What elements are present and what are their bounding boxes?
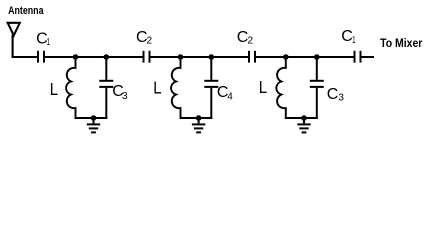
inductor L (tank 1) — [66, 56, 75, 119]
node: tank1 ground tap — [91, 115, 97, 121]
capacitor C2 (series, 1st) — [144, 51, 150, 63]
node: tank1 C3 tap — [104, 54, 110, 60]
ground (tank 3) — [297, 117, 310, 132]
wire: tank3 bottom rail — [285, 117, 318, 119]
svg-text:1: 1 — [352, 35, 356, 46]
node: tank3 C3 tap — [314, 54, 320, 60]
wire: C2 to C1 (spans tank 3 taps) — [256, 56, 354, 58]
svg-text:L: L — [259, 77, 268, 97]
svg-text:C: C — [341, 28, 353, 45]
inductor L (tank 3) — [276, 56, 285, 119]
svg-text:3: 3 — [122, 91, 128, 102]
svg-text:4: 4 — [227, 91, 233, 102]
svg-text:To Mixer: To Mixer — [380, 36, 423, 50]
wire: C1 to C2 (spans tank 1 taps) — [45, 56, 143, 58]
inductor L (tank 2) — [171, 56, 180, 119]
wire: antenna to C1 — [12, 56, 38, 58]
capacitor C1 (series output) — [355, 51, 361, 63]
node: tank3 ground tap — [301, 115, 307, 121]
capacitor C3 (tank 3 shunt) — [310, 56, 324, 119]
capacitor C2 (series, 2nd) — [249, 51, 255, 63]
wire: tank2 bottom rail — [180, 117, 213, 119]
wire: tank1 bottom rail — [75, 117, 108, 119]
wire: C2 to C2 (spans tank 2 taps) — [150, 56, 248, 58]
node: tank3 L tap — [283, 54, 289, 60]
svg-text:L: L — [153, 78, 162, 98]
svg-text:3: 3 — [338, 93, 344, 104]
node: tank1 L tap — [73, 54, 79, 60]
svg-text:1: 1 — [47, 37, 51, 48]
capacitor C4 (tank 2 shunt) — [204, 56, 218, 119]
ground (tank 2) — [192, 117, 205, 132]
ground (tank 1) — [87, 117, 100, 132]
svg-text:L: L — [50, 79, 59, 99]
node: tank2 L tap — [178, 54, 184, 60]
capacitor C3 (tank 1 shunt) — [99, 56, 113, 119]
antenna ANT symbol — [8, 23, 20, 58]
wire: C1 to output stub — [361, 56, 374, 58]
svg-text:2: 2 — [248, 36, 254, 47]
capacitor C1 (series input) — [38, 51, 44, 63]
svg-text:Antenna: Antenna — [8, 5, 44, 17]
svg-text:2: 2 — [147, 36, 153, 47]
svg-text:C: C — [327, 86, 339, 103]
node: tank2 ground tap — [196, 115, 202, 121]
node: tank2 C4 tap — [209, 54, 215, 60]
